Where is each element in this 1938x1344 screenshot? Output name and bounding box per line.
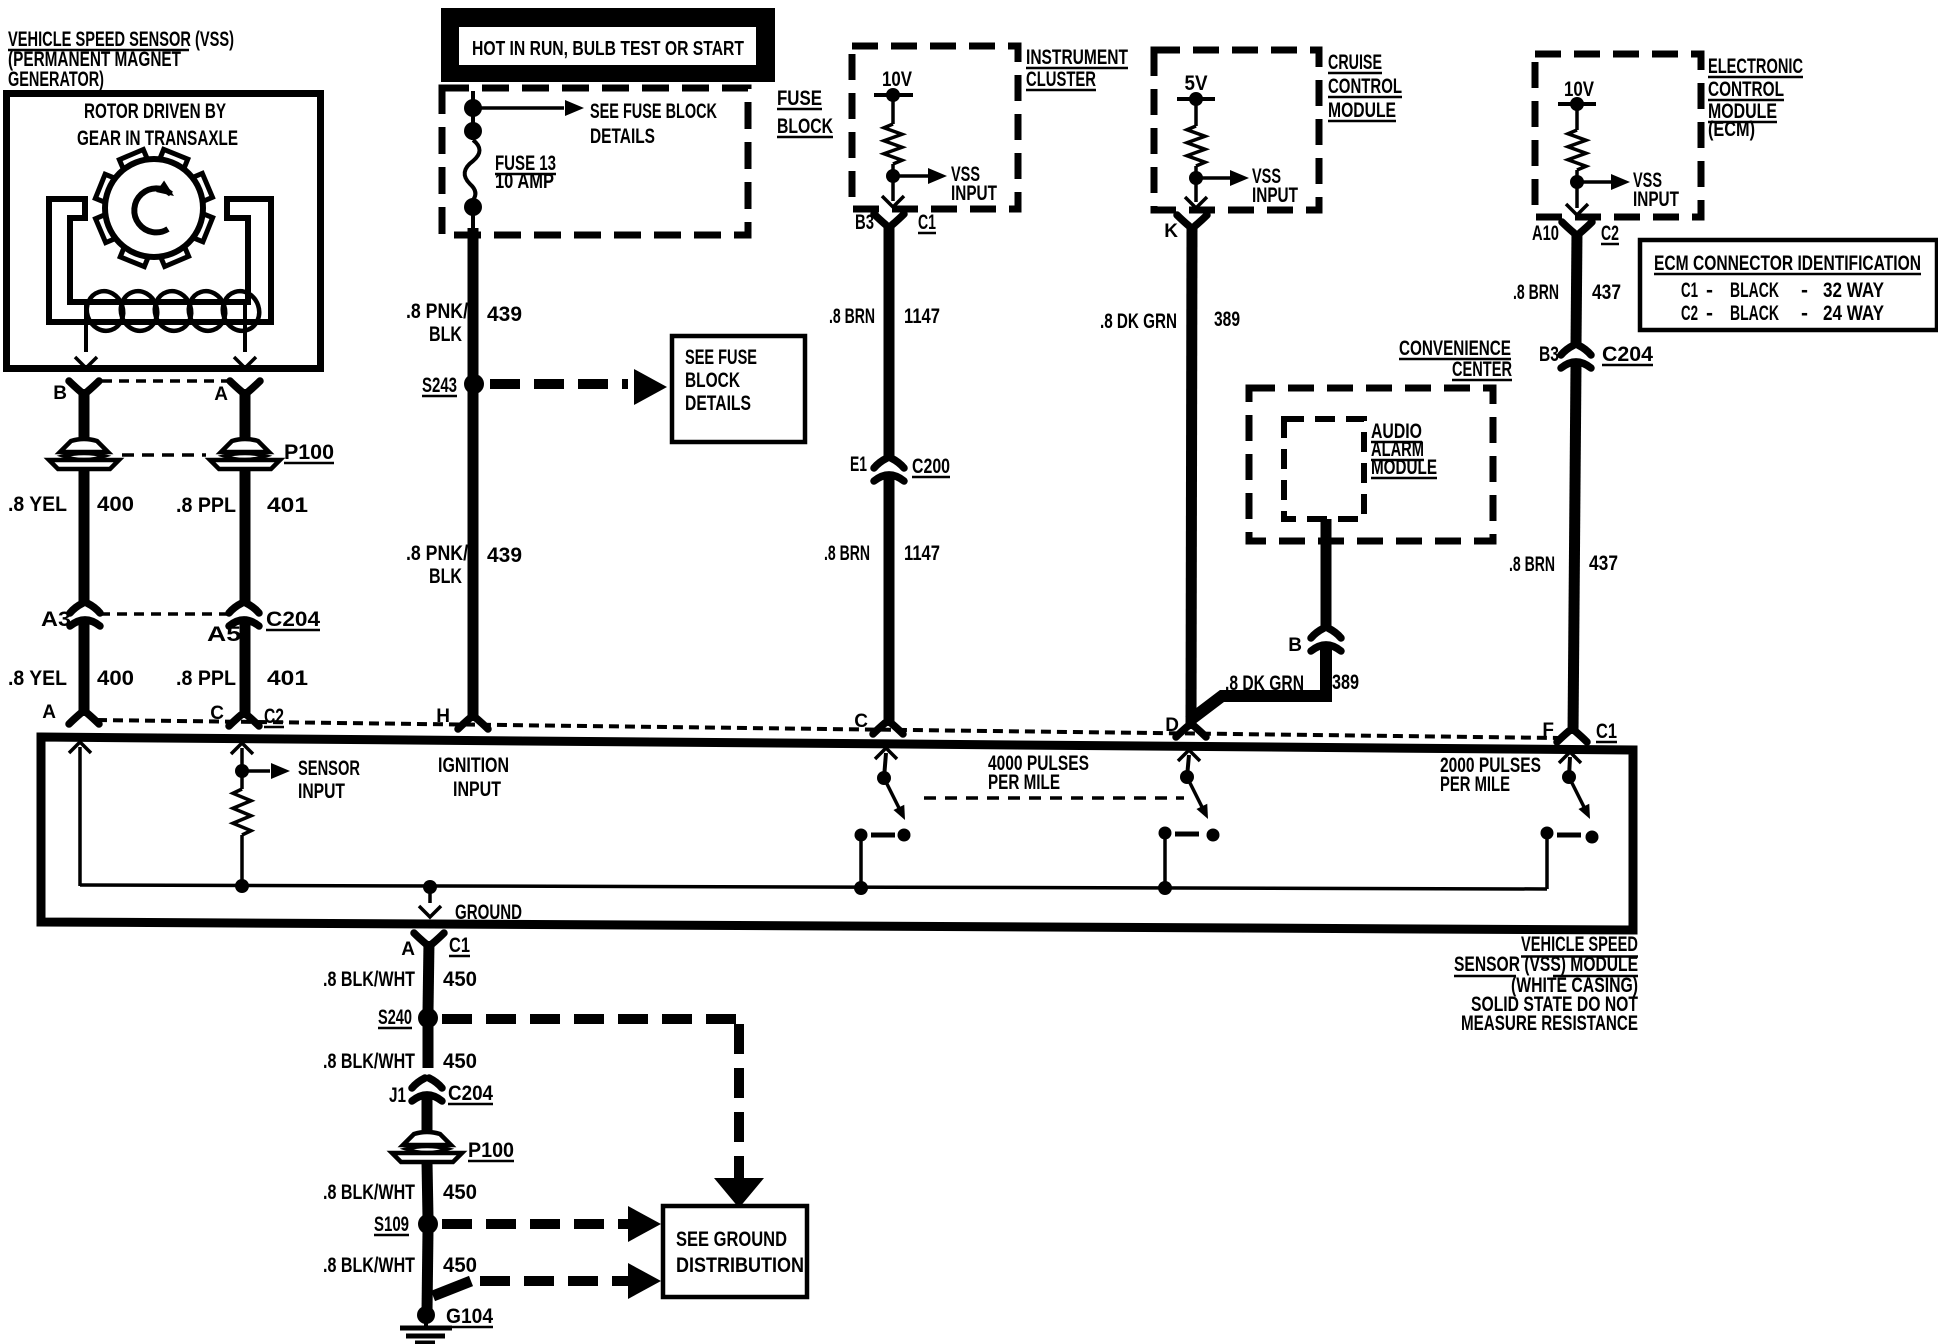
svg-text:FUSE: FUSE <box>777 87 822 110</box>
node VSS INPUT ECM <box>1570 175 1584 189</box>
splice in fuse block top <box>464 99 482 117</box>
svg-text:IGNITION: IGNITION <box>438 754 509 777</box>
wire to P100 <box>422 1098 433 1136</box>
svg-text:MODULE: MODULE <box>1328 99 1396 122</box>
svg-text:DETAILS: DETAILS <box>590 125 655 148</box>
svg-text:1147: 1147 <box>904 305 940 328</box>
svg-text:450: 450 <box>443 1254 477 1277</box>
ground arrow <box>428 887 432 903</box>
svg-text:.8 YEL: .8 YEL <box>8 667 67 690</box>
svg-text:C2: C2 <box>1681 302 1698 325</box>
VSS module box <box>41 737 1633 930</box>
svg-text:ECM CONNECTOR IDENTIFICATION: ECM CONNECTOR IDENTIFICATION <box>1654 252 1921 275</box>
svg-text:INPUT: INPUT <box>453 778 501 801</box>
splice S243 <box>464 374 484 394</box>
svg-text:C: C <box>210 703 224 724</box>
svg-text:GROUND: GROUND <box>455 901 522 924</box>
svg-text:CLUSTER: CLUSTER <box>1026 68 1096 91</box>
svg-text:32 WAY: 32 WAY <box>1823 279 1884 302</box>
pin A10 / C2 ECM <box>1562 222 1592 233</box>
svg-text:C200: C200 <box>912 455 950 478</box>
connector C204 (B3) ECM <box>1561 345 1591 355</box>
splice fuse bottom <box>464 198 482 216</box>
svg-text:SEE GROUND: SEE GROUND <box>676 1228 787 1251</box>
cruise control dashed box <box>1154 50 1319 210</box>
svg-text:-: - <box>1801 302 1808 325</box>
svg-text:401: 401 <box>267 494 308 517</box>
pin B3 / C1 instrument <box>874 214 904 225</box>
wire .8 BLK/WHT 450 first <box>428 941 429 1012</box>
svg-text:.8 BRN: .8 BRN <box>829 305 875 328</box>
svg-text:SEE FUSE BLOCK: SEE FUSE BLOCK <box>590 100 717 123</box>
svg-text:G104: G104 <box>446 1305 493 1328</box>
svg-text:INPUT: INPUT <box>1633 188 1679 211</box>
wire .8 BRN 437 upper <box>1576 231 1577 346</box>
svg-text:450: 450 <box>443 1181 477 1204</box>
svg-text:P100: P100 <box>468 1139 514 1162</box>
svg-text:.8 BLK/WHT: .8 BLK/WHT <box>323 1254 415 1277</box>
box SEE FUSE BLOCK DETAILS <box>672 336 805 442</box>
svg-text:.8 BLK/WHT: .8 BLK/WHT <box>323 1050 415 1073</box>
dashed pointer to ground distribution lower <box>433 1281 471 1296</box>
svg-text:401: 401 <box>267 667 308 690</box>
fuse 13 element <box>465 140 480 200</box>
svg-text:C204: C204 <box>1602 343 1653 366</box>
grommet P100 right <box>221 439 269 452</box>
arrow up pin A inside <box>69 742 91 753</box>
svg-text:B3: B3 <box>855 211 874 234</box>
svg-text:439: 439 <box>487 303 522 326</box>
wire .8 PPL 401 upper <box>240 469 251 605</box>
svg-text:INPUT: INPUT <box>1252 184 1298 207</box>
node sensor input <box>235 764 249 778</box>
svg-text:CENTER: CENTER <box>1452 358 1512 381</box>
splice S240 <box>418 1008 438 1028</box>
rotation arrow <box>134 188 171 232</box>
svg-text:SEE FUSE: SEE FUSE <box>685 346 757 369</box>
svg-text:.8 BLK/WHT: .8 BLK/WHT <box>323 968 415 991</box>
switch 3 (ECM) <box>1559 752 1581 763</box>
svg-text:C1: C1 <box>918 211 936 234</box>
connector C204 right half (A5) <box>229 603 259 613</box>
svg-text:BLACK: BLACK <box>1730 302 1779 325</box>
splice S109 <box>418 1214 438 1234</box>
svg-text:PER MILE: PER MILE <box>988 771 1060 794</box>
svg-text:439: 439 <box>487 544 522 567</box>
svg-text:CONTROL: CONTROL <box>1328 75 1402 98</box>
svg-text:C1: C1 <box>1681 279 1698 302</box>
svg-text:.8 YEL: .8 YEL <box>8 493 67 516</box>
wire .8 BLK/WHT 450 fourth <box>427 1230 428 1312</box>
svg-text:.8 BLK/WHT: .8 BLK/WHT <box>323 1181 415 1204</box>
pin A / C1 out of module <box>414 933 444 944</box>
wire inside fuse block <box>471 91 475 140</box>
arrow SEE FUSE BLOCK DETAILS (top) <box>480 106 564 110</box>
wire sensor lead B <box>84 305 88 352</box>
dashed pointer S240 to ground distribution <box>442 1014 739 1024</box>
svg-text:.8 PPL: .8 PPL <box>176 667 236 690</box>
svg-text:-: - <box>1706 302 1713 325</box>
wire .8 YEL 400 upper <box>79 469 90 605</box>
arrow to pin K <box>1194 178 1198 202</box>
pin C / C2 into module <box>240 651 251 718</box>
pin B connector audio <box>1311 628 1341 638</box>
svg-text:-: - <box>1706 279 1713 302</box>
svg-text:A: A <box>42 702 56 723</box>
wire .8 PPL 401 lower <box>240 623 251 695</box>
svg-text:INPUT: INPUT <box>951 182 997 205</box>
pin A of VSS sensor <box>230 381 260 392</box>
wire A to P100 <box>240 389 251 441</box>
svg-text:400: 400 <box>97 493 134 516</box>
svg-text:MEASURE RESISTANCE: MEASURE RESISTANCE <box>1461 1012 1638 1035</box>
dashed pointer S109 to ground distribution <box>442 1219 628 1229</box>
pin F / C1 into module (ECM) <box>1557 731 1587 742</box>
arrow up sensor input inside <box>231 743 253 754</box>
svg-text:BLACK: BLACK <box>1730 279 1779 302</box>
svg-text:A3: A3 <box>41 608 71 631</box>
connector C200 (E1) <box>874 458 904 468</box>
wire .8 BLK/WHT 450 third <box>427 1162 428 1218</box>
node VSS INPUT instrument <box>886 169 900 183</box>
svg-text:BLOCK: BLOCK <box>685 369 740 392</box>
convenience center dashed box <box>1249 388 1493 541</box>
svg-text:D: D <box>1165 715 1179 736</box>
svg-text:(ECM): (ECM) <box>1708 118 1755 141</box>
svg-text:5V: 5V <box>1185 72 1208 95</box>
pin C into module (instrument) <box>873 723 903 734</box>
svg-text:C1: C1 <box>1596 720 1617 743</box>
svg-text:HOT IN RUN, BULB TEST OR START: HOT IN RUN, BULB TEST OR START <box>472 38 744 60</box>
magnet core <box>49 199 271 322</box>
svg-text:437: 437 <box>1589 552 1618 575</box>
svg-text:C1: C1 <box>449 934 470 957</box>
VSS sensor box <box>7 94 321 369</box>
svg-text:437: 437 <box>1592 281 1621 304</box>
box SEE GROUND DISTRIBUTION <box>663 1206 807 1297</box>
fuse block dashed box <box>442 88 748 235</box>
svg-text:B: B <box>1288 635 1302 656</box>
wire .8 DK GRN 389 <box>1191 224 1192 729</box>
svg-text:C2: C2 <box>1601 222 1619 245</box>
svg-text:B3: B3 <box>1539 343 1559 366</box>
svg-text:ELECTRONIC: ELECTRONIC <box>1708 55 1803 78</box>
node VSS INPUT cruise <box>1189 171 1203 185</box>
svg-text:B: B <box>53 383 67 404</box>
dashed pointer S243 to fuse block details <box>490 379 628 389</box>
svg-text:A5: A5 <box>207 623 241 646</box>
connector C204 left half (A3) <box>70 603 100 613</box>
svg-text:INPUT: INPUT <box>298 780 345 803</box>
pin K cruise <box>1177 215 1207 226</box>
svg-text:INSTRUMENT: INSTRUMENT <box>1026 46 1128 69</box>
dashed line C204 <box>100 612 228 616</box>
svg-text:.8 DK GRN: .8 DK GRN <box>1225 672 1304 695</box>
wire audio alarm to B <box>1321 519 1332 630</box>
svg-text:1147: 1147 <box>904 542 940 565</box>
ground bus inside module <box>80 885 1547 889</box>
svg-text:C2: C2 <box>264 705 284 728</box>
svg-text:DETAILS: DETAILS <box>685 392 751 415</box>
svg-text:-: - <box>1801 279 1808 302</box>
svg-text:H: H <box>436 706 450 727</box>
svg-text:F: F <box>1542 720 1554 741</box>
pin B of VSS sensor <box>69 381 99 392</box>
rotor gear <box>95 149 212 266</box>
wire .8 PNK/BLK 439 upper <box>468 228 479 380</box>
svg-text:S243: S243 <box>422 374 457 397</box>
svg-text:ROTOR DRIVEN BY: ROTOR DRIVEN BY <box>84 100 226 123</box>
arrow to pin A10 <box>1575 182 1579 208</box>
power box HOT IN RUN BULB TEST OR START <box>441 8 775 82</box>
svg-text:BLK: BLK <box>429 323 462 346</box>
svg-text:CRUISE: CRUISE <box>1328 51 1382 74</box>
svg-text:24 WAY: 24 WAY <box>1823 302 1884 325</box>
audio alarm module dashed box <box>1284 419 1364 519</box>
svg-text:.8 BRN: .8 BRN <box>824 542 870 565</box>
svg-text:10V: 10V <box>882 68 912 91</box>
wire .8 BLK/WHT 450 second <box>423 1024 434 1068</box>
svg-text:S240: S240 <box>378 1006 412 1029</box>
arrow to pin B3 <box>891 176 895 201</box>
svg-text:SENSOR (VSS) MODULE: SENSOR (VSS) MODULE <box>1454 953 1638 976</box>
svg-text:C: C <box>854 711 868 732</box>
wire .8 BRN 1147 lower <box>884 478 895 726</box>
ground G104 <box>417 1306 435 1324</box>
switch 1 (instrument) <box>875 748 897 759</box>
wire sensor lead A <box>243 303 247 352</box>
svg-text:450: 450 <box>443 968 477 991</box>
svg-text:GENERATOR): GENERATOR) <box>8 68 104 91</box>
svg-text:.8 PNK/: .8 PNK/ <box>406 542 468 565</box>
pin D into module (cruise) <box>1176 726 1206 737</box>
svg-text:E1: E1 <box>850 453 867 476</box>
grommet P100 bottom <box>403 1132 451 1145</box>
wire .8 DK GRN 389 audio <box>1189 648 1326 721</box>
svg-text:S109: S109 <box>374 1213 409 1236</box>
svg-text:BLOCK: BLOCK <box>777 115 833 138</box>
resistor ECM <box>1568 130 1586 170</box>
svg-text:C204: C204 <box>266 608 320 631</box>
resistor cruise <box>1187 126 1205 166</box>
svg-text:BLK: BLK <box>429 565 462 588</box>
switch link dashed <box>924 796 1184 800</box>
svg-text:SENSOR: SENSOR <box>298 757 360 780</box>
wire .8 BRN 437 lower <box>1573 365 1576 734</box>
connector C204 (J1) <box>412 1078 442 1088</box>
electronic control module dashed box <box>1535 54 1701 217</box>
svg-text:450: 450 <box>443 1050 477 1073</box>
svg-text:389: 389 <box>1332 671 1359 694</box>
svg-text:389: 389 <box>1214 308 1240 331</box>
svg-text:.8 PNK/: .8 PNK/ <box>406 300 468 323</box>
pin A into module <box>79 651 90 716</box>
grommet P100 left <box>60 439 108 452</box>
wire .8 BRN 1147 upper <box>884 223 895 458</box>
connector face dashed line across module <box>97 720 1558 738</box>
svg-text:CONVENIENCE: CONVENIENCE <box>1399 337 1511 360</box>
svg-text:GEAR IN TRANSAXLE: GEAR IN TRANSAXLE <box>77 127 238 150</box>
svg-text:10 AMP: 10 AMP <box>495 170 554 193</box>
svg-text:P100: P100 <box>284 441 334 464</box>
svg-text:K: K <box>1164 221 1178 242</box>
svg-text:MODULE: MODULE <box>1371 456 1437 479</box>
svg-text:.8 DK GRN: .8 DK GRN <box>1100 310 1177 333</box>
ECM connector identification box <box>1640 240 1937 330</box>
resistor instrument cluster <box>884 124 902 164</box>
connector face dashed line B-A <box>102 379 231 383</box>
svg-text:J1: J1 <box>389 1084 406 1107</box>
wire .8 PNK/BLK 439 lower <box>468 389 479 721</box>
svg-text:A: A <box>401 939 415 960</box>
svg-text:C204: C204 <box>448 1082 493 1105</box>
svg-text:A: A <box>214 384 228 405</box>
svg-text:.8 BRN: .8 BRN <box>1509 553 1555 576</box>
svg-text:.8 PPL: .8 PPL <box>176 494 236 517</box>
coil winding <box>82 286 129 335</box>
svg-text:DISTRIBUTION: DISTRIBUTION <box>676 1254 804 1277</box>
pin H into module <box>458 718 488 729</box>
svg-text:CONTROL: CONTROL <box>1708 78 1784 101</box>
svg-text:A10: A10 <box>1532 222 1559 245</box>
svg-text:.8 BRN: .8 BRN <box>1513 281 1559 304</box>
instrument cluster dashed box <box>852 46 1018 209</box>
wire .8 YEL 400 lower <box>79 623 90 694</box>
resistor inside module <box>240 771 244 789</box>
dashed line P100 <box>122 453 206 457</box>
svg-text:PER MILE: PER MILE <box>1440 773 1510 796</box>
switch 2 (cruise) <box>1178 750 1200 761</box>
svg-text:400: 400 <box>97 667 134 690</box>
wire B to P100 <box>79 389 90 441</box>
